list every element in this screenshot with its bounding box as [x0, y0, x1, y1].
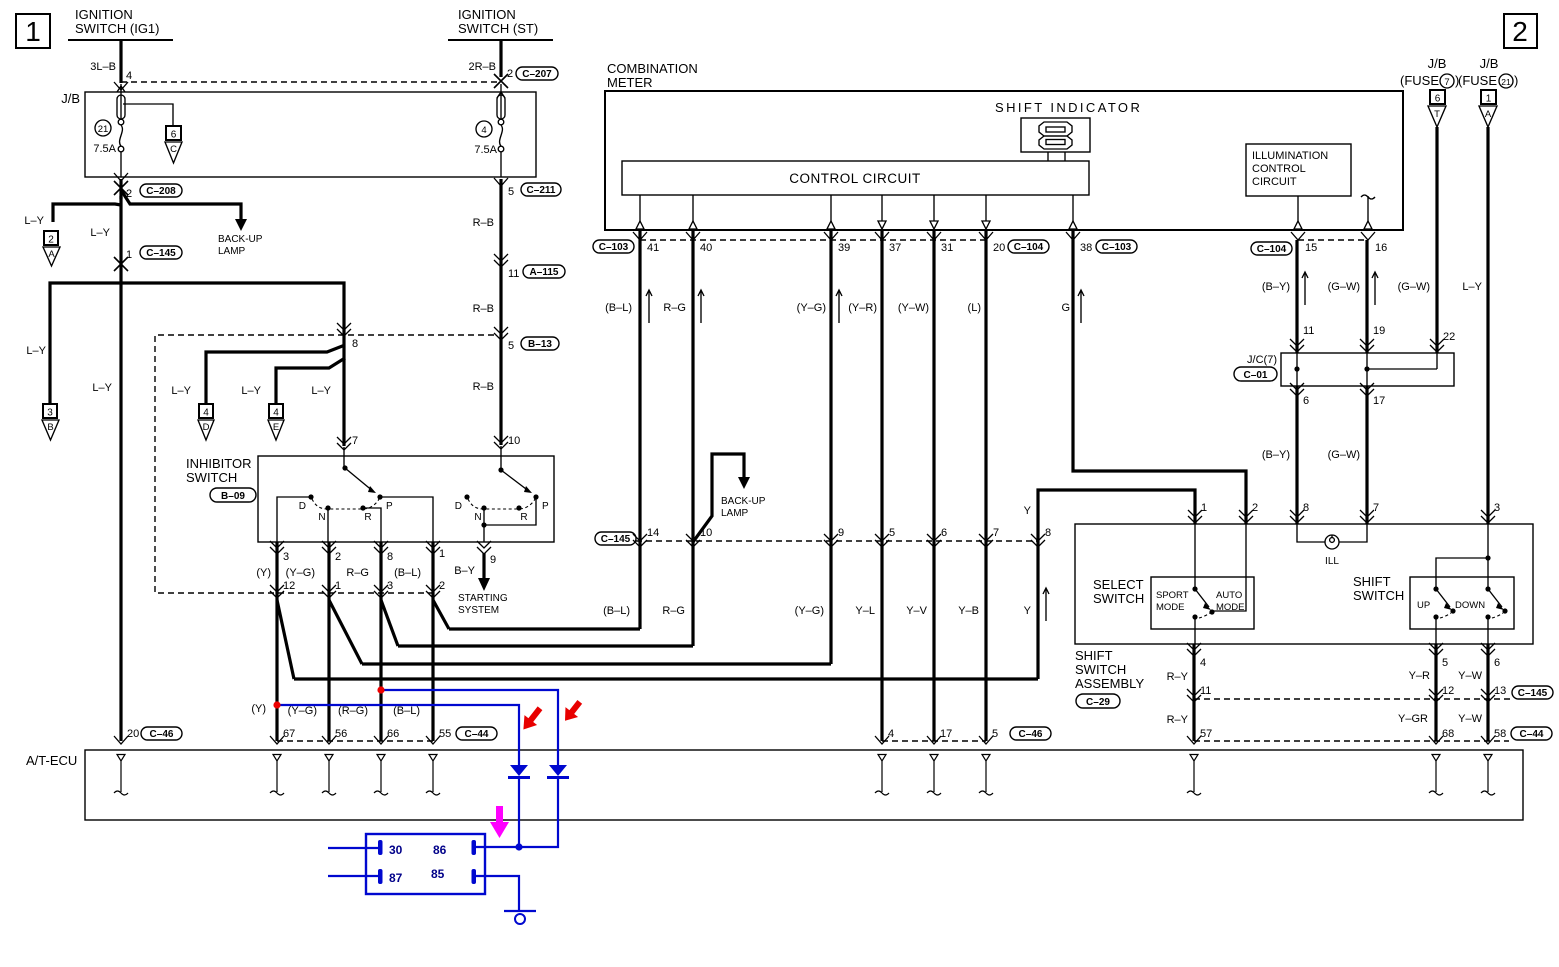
- svg-text:L–Y: L–Y: [92, 382, 112, 394]
- svg-text:5: 5: [508, 340, 514, 352]
- svg-text:11: 11: [1303, 325, 1314, 337]
- svg-text:12: 12: [1442, 685, 1454, 697]
- connector C-207: [494, 67, 558, 88]
- svg-text:4: 4: [481, 125, 486, 136]
- svg-text:6: 6: [171, 130, 177, 141]
- back-up lamp branch from pin 10: [693, 454, 766, 542]
- wire 22 G-W from fuse 7: [1398, 127, 1456, 369]
- svg-text:4: 4: [1200, 657, 1206, 669]
- inhibitor output pins 3,2,8,1: [256, 541, 445, 741]
- blue added circuit: [251, 686, 569, 924]
- svg-text:B–Y: B–Y: [454, 565, 475, 577]
- branch at y=283: left to 3/B, right to inhibitor pin 8: [26, 283, 344, 446]
- svg-text:B: B: [47, 422, 53, 433]
- select switch: [1093, 524, 1254, 644]
- svg-text:(R–G): (R–G): [338, 705, 368, 717]
- shift switch: [1353, 524, 1514, 644]
- svg-text:SHIFT: SHIFT: [1075, 648, 1113, 663]
- svg-text:8: 8: [1303, 502, 1309, 514]
- svg-text:Y–V: Y–V: [906, 605, 927, 617]
- svg-text:A/T-ECU: A/T-ECU: [26, 753, 77, 768]
- L-Y branch to terminal 4/E: [241, 358, 345, 404]
- svg-text:SHIFT INDICATOR: SHIFT INDICATOR: [995, 100, 1142, 115]
- svg-text:2: 2: [48, 235, 54, 246]
- svg-text:): ): [1514, 73, 1518, 88]
- svg-text:Y–GR: Y–GR: [1398, 713, 1428, 725]
- wire R-G horizontal run: [398, 644, 693, 647]
- svg-text:L–Y: L–Y: [1462, 281, 1482, 293]
- svg-text:68: 68: [1442, 728, 1454, 740]
- svg-text:86: 86: [433, 843, 447, 857]
- svg-text:L–Y: L–Y: [241, 385, 261, 397]
- svg-text:SYSTEM: SYSTEM: [458, 605, 499, 616]
- page number box 1: [16, 14, 50, 48]
- svg-text:Y: Y: [1024, 505, 1032, 517]
- svg-text:(G–W): (G–W): [1328, 449, 1360, 461]
- svg-text:7: 7: [1373, 502, 1379, 514]
- SSA output wires to ECU: [1167, 643, 1553, 744]
- svg-text:R–G: R–G: [663, 302, 686, 314]
- svg-text:1: 1: [1486, 94, 1492, 105]
- svg-text:6: 6: [1303, 395, 1309, 407]
- svg-text:SHIFT: SHIFT: [1353, 574, 1391, 589]
- svg-text:38: 38: [1080, 242, 1092, 254]
- wire branch at C-208: left to terminal 2/A, right to back-up lamp: [24, 190, 262, 741]
- dashed boundary box around inhibitor area: [155, 335, 494, 593]
- svg-text:(Y): (Y): [256, 567, 271, 579]
- svg-text:C: C: [170, 144, 177, 155]
- wire 3L-B from IG1: [90, 40, 132, 83]
- svg-text:BACK-UP: BACK-UP: [721, 496, 766, 507]
- svg-text:20: 20: [127, 728, 139, 740]
- svg-text:D: D: [299, 501, 306, 512]
- svg-text:C–104: C–104: [1014, 242, 1044, 253]
- svg-text:(L): (L): [968, 302, 981, 314]
- svg-text:DOWN: DOWN: [1455, 600, 1485, 611]
- svg-text:7: 7: [1444, 77, 1449, 88]
- left ECU pin row: [114, 727, 497, 744]
- svg-text:Y–R: Y–R: [1409, 670, 1430, 682]
- wire stub to relay 87: [328, 875, 378, 877]
- svg-text:3: 3: [47, 408, 53, 419]
- wire G pin 38 to select switch pin 2: [1073, 230, 1246, 524]
- svg-text:41: 41: [647, 242, 659, 254]
- svg-text:1: 1: [126, 249, 132, 261]
- svg-text:METER: METER: [607, 75, 653, 90]
- svg-text:SWITCH: SWITCH: [1075, 662, 1126, 677]
- ILL lamp: [1297, 524, 1367, 567]
- svg-text:SWITCH: SWITCH: [1353, 588, 1404, 603]
- svg-text:5: 5: [508, 186, 514, 198]
- svg-text:55: 55: [439, 728, 451, 740]
- svg-text:58: 58: [1494, 728, 1506, 740]
- svg-text:R–B: R–B: [473, 303, 494, 315]
- J/B fuse 7 feed label: [1400, 56, 1459, 88]
- A/T-ECU box: [26, 750, 1523, 820]
- svg-text:CIRCUIT: CIRCUIT: [1252, 176, 1297, 188]
- svg-text:P: P: [386, 501, 393, 512]
- SSA entry chevrons for 1 and 2: [1188, 502, 1258, 523]
- svg-text:D: D: [455, 501, 462, 512]
- svg-text:CONTROL CIRCUIT: CONTROL CIRCUIT: [789, 171, 921, 186]
- wires 15/16 from illumination circuit down to J/C: [1262, 240, 1385, 353]
- svg-text:(Y–G): (Y–G): [286, 567, 315, 579]
- magenta annotation arrow: [490, 806, 509, 838]
- svg-text:(B–Y): (B–Y): [1262, 281, 1290, 293]
- svg-text:3: 3: [283, 551, 289, 563]
- svg-text:C–145: C–145: [1518, 688, 1548, 699]
- svg-text:30: 30: [389, 843, 403, 857]
- wire diagonal from pin 3: [381, 600, 398, 646]
- svg-text:Y–L: Y–L: [855, 605, 875, 617]
- svg-text:P: P: [542, 501, 549, 512]
- ignition switch ST label: [448, 7, 553, 40]
- terminal 1/A: [1479, 90, 1497, 127]
- svg-text:A: A: [48, 249, 55, 260]
- svg-text:C–145: C–145: [146, 248, 176, 259]
- svg-text:SELECT: SELECT: [1093, 577, 1144, 592]
- svg-text:8: 8: [1045, 527, 1051, 539]
- svg-text:(B–L): (B–L): [603, 605, 630, 617]
- junction dot on wire 66: [377, 686, 384, 693]
- relay pin 30 terminal: [378, 840, 383, 855]
- svg-text:2: 2: [1512, 16, 1528, 47]
- svg-text:SWITCH: SWITCH: [1093, 591, 1144, 606]
- svg-text:R: R: [364, 512, 371, 523]
- wire (Y-G) horizontal run: [362, 662, 831, 665]
- wire colour labels below meter: [605, 290, 1084, 323]
- relay pin 85 terminal: [472, 869, 477, 884]
- junction dot on wire 67: [273, 701, 280, 708]
- svg-text:CONTROL: CONTROL: [1252, 163, 1306, 175]
- svg-text:B–13: B–13: [528, 339, 552, 350]
- wire blue tap from node 67 (Y): [277, 705, 519, 765]
- svg-text:(B–L): (B–L): [394, 567, 421, 579]
- svg-text:N: N: [318, 512, 325, 523]
- wire relay 85 to ground: [476, 876, 519, 912]
- terminal 4/D: [198, 404, 214, 440]
- svg-text:C–208: C–208: [146, 186, 176, 197]
- meter internal pin stubs with direction triangles: [636, 195, 1375, 229]
- ECU internal pins: [114, 755, 1495, 796]
- wire Y-L pin 37 vertical: [880, 230, 883, 741]
- wire diagonal from pin 12: [277, 600, 294, 679]
- terminal 4/E: [268, 404, 284, 440]
- svg-text:L–Y: L–Y: [24, 215, 44, 227]
- starting system pin 9: [454, 541, 508, 616]
- svg-text:D: D: [203, 422, 210, 433]
- wire R-G pin 40 vertical: [691, 230, 694, 646]
- svg-text:R: R: [520, 512, 527, 523]
- svg-text:SWITCH (IG1): SWITCH (IG1): [75, 21, 160, 36]
- svg-text:3: 3: [1494, 502, 1500, 514]
- svg-text:SWITCH (ST): SWITCH (ST): [458, 21, 538, 36]
- svg-text:(Y–W): (Y–W): [898, 302, 929, 314]
- wire colour labels below C-145 row: [603, 505, 1049, 621]
- svg-text:L–Y: L–Y: [26, 345, 46, 357]
- wire 2R-B from ST: [468, 40, 513, 80]
- svg-text:17: 17: [1373, 395, 1385, 407]
- svg-text:(G–W): (G–W): [1328, 281, 1360, 293]
- svg-text:(Y–R): (Y–R): [848, 302, 877, 314]
- svg-text:C–211: C–211: [527, 185, 556, 196]
- combination meter box: [605, 61, 1403, 230]
- terminal 6/C inside J/B: [123, 104, 182, 163]
- svg-text:21: 21: [1501, 77, 1511, 87]
- wire diagonal from pin 1: [329, 600, 362, 664]
- svg-text:(Y): (Y): [251, 703, 266, 715]
- svg-text:13: 13: [1494, 685, 1506, 697]
- svg-text:39: 39: [838, 242, 850, 254]
- meter bottom pin row: [593, 232, 1387, 255]
- svg-text:E: E: [273, 422, 279, 433]
- svg-text:Y: Y: [1024, 605, 1032, 617]
- svg-text:6: 6: [1494, 657, 1500, 669]
- svg-text:(Y–G): (Y–G): [795, 605, 824, 617]
- ground symbol: [515, 914, 525, 924]
- wire (B-L) horizontal run: [449, 627, 640, 630]
- connector C-145 pin 1: [114, 246, 182, 271]
- svg-text:6: 6: [941, 527, 947, 539]
- wire (Y-G) pin 39 vertical: [829, 230, 832, 664]
- svg-text:L–Y: L–Y: [171, 385, 191, 397]
- relay K1: [366, 834, 485, 894]
- svg-text:(B–Y): (B–Y): [1262, 449, 1290, 461]
- junction connector J/C(7) C-01: [1234, 353, 1454, 386]
- svg-text:Y–B: Y–B: [958, 605, 979, 617]
- svg-text:LAMP: LAMP: [218, 246, 246, 257]
- junction block J/B box: [61, 91, 536, 177]
- svg-text:5: 5: [992, 728, 998, 740]
- svg-text:J/B: J/B: [1428, 56, 1447, 71]
- svg-text:COMBINATION: COMBINATION: [607, 61, 698, 76]
- svg-text:12: 12: [283, 580, 295, 592]
- svg-text:3L–B: 3L–B: [90, 61, 116, 73]
- svg-text:11: 11: [1200, 685, 1211, 697]
- inhibitor switch left bank: [277, 465, 433, 542]
- svg-text:C–46: C–46: [150, 729, 174, 740]
- wire stub to relay 30: [328, 847, 378, 849]
- svg-text:L–Y: L–Y: [311, 385, 331, 397]
- svg-text:A: A: [1485, 109, 1492, 120]
- svg-text:A–115: A–115: [530, 267, 559, 278]
- svg-text:ILL: ILL: [1325, 556, 1339, 567]
- wire Y-V pin 31 vertical: [932, 230, 935, 741]
- svg-text:SWITCH: SWITCH: [186, 470, 237, 485]
- svg-text:IGNITION: IGNITION: [458, 7, 516, 22]
- shift switch assembly box: [1075, 524, 1533, 708]
- wire Y horizontal run: [294, 677, 1038, 680]
- red annotation arrows: [517, 697, 586, 735]
- terminal 6/T: [1428, 90, 1446, 127]
- svg-text:56: 56: [335, 728, 347, 740]
- ignition switch IG1 label: [68, 7, 173, 40]
- svg-text:9: 9: [838, 527, 844, 539]
- svg-text:BACK-UP: BACK-UP: [218, 234, 263, 245]
- svg-text:UP: UP: [1417, 600, 1430, 611]
- svg-text:R–G: R–G: [662, 605, 685, 617]
- svg-text:R–B: R–B: [473, 217, 494, 229]
- svg-text:Y–W: Y–W: [1458, 670, 1482, 682]
- svg-text:57: 57: [1200, 728, 1212, 740]
- svg-text:10: 10: [700, 527, 712, 539]
- svg-text:(Y–G): (Y–G): [797, 302, 826, 314]
- svg-text:C–207: C–207: [522, 69, 552, 80]
- wire Y-B pin 20 vertical: [984, 230, 987, 741]
- shift indicator: [995, 100, 1142, 161]
- wire relay 86 to diode junction: [476, 846, 519, 848]
- svg-text:STARTING: STARTING: [458, 593, 508, 604]
- svg-text:40: 40: [700, 242, 712, 254]
- svg-text:(Y–G): (Y–G): [288, 705, 317, 717]
- relay pin 86 terminal: [472, 840, 477, 855]
- diode D1: [510, 765, 528, 776]
- svg-text:7: 7: [352, 435, 358, 447]
- wire (B-L) pin 41 vertical: [638, 230, 641, 629]
- J/B fuse 21 feed label: [1458, 56, 1518, 88]
- svg-text:15: 15: [1305, 242, 1317, 254]
- svg-text:2: 2: [335, 551, 341, 563]
- svg-text:1: 1: [1201, 502, 1207, 514]
- svg-text:85: 85: [431, 867, 445, 881]
- illumination control circuit box: [1246, 144, 1351, 196]
- C-145 middle connector row: [595, 527, 1051, 547]
- svg-text:AUTO: AUTO: [1216, 590, 1242, 601]
- terminal 3/B: [42, 404, 59, 440]
- svg-text:2R–B: 2R–B: [468, 61, 496, 73]
- svg-text:4: 4: [126, 70, 132, 82]
- wire blue tap from node 66 (R-G): [381, 690, 558, 765]
- svg-text:17: 17: [940, 728, 952, 740]
- svg-text:ASSEMBLY: ASSEMBLY: [1075, 676, 1144, 691]
- fuse 21: [93, 82, 128, 177]
- svg-text:ILLUMINATION: ILLUMINATION: [1252, 150, 1328, 162]
- connector C-208: [114, 173, 182, 200]
- wire L-Y from fuse 21: [1462, 127, 1500, 524]
- dashed connector line top: [121, 81, 501, 83]
- svg-text:5: 5: [889, 527, 895, 539]
- svg-text:L–Y: L–Y: [90, 227, 110, 239]
- wires 6/17 from J/C down to SSA: [1262, 383, 1385, 524]
- svg-text:R–Y: R–Y: [1167, 714, 1189, 726]
- svg-text:C–44: C–44: [465, 729, 489, 740]
- node 7 inhibitor pin: [337, 435, 358, 468]
- svg-text:C–44: C–44: [1520, 729, 1544, 740]
- svg-text:R–G: R–G: [346, 567, 369, 579]
- svg-text:J/B: J/B: [1480, 56, 1499, 71]
- svg-text:R–Y: R–Y: [1167, 671, 1189, 683]
- svg-text:C–29: C–29: [1086, 697, 1110, 708]
- svg-text:1: 1: [439, 548, 445, 560]
- svg-text:7.5A: 7.5A: [474, 144, 497, 156]
- svg-text:7.5A: 7.5A: [93, 143, 116, 155]
- svg-text:N: N: [474, 512, 481, 523]
- svg-text:22: 22: [1443, 331, 1455, 343]
- inhibitor switch right bank: [455, 467, 549, 542]
- svg-text:2: 2: [1252, 502, 1258, 514]
- ST wire down to inhibitor: R-B segments: [473, 178, 565, 470]
- fuse 4: [474, 84, 505, 177]
- svg-text:8: 8: [352, 338, 358, 350]
- svg-text:1: 1: [25, 16, 41, 47]
- page number box 2: [1504, 14, 1537, 48]
- svg-text:T: T: [1434, 109, 1440, 120]
- svg-text:8: 8: [387, 551, 393, 563]
- svg-text:C–103: C–103: [1102, 242, 1132, 253]
- svg-text:C–103: C–103: [599, 242, 629, 253]
- svg-text:C–46: C–46: [1019, 729, 1043, 740]
- svg-text:7: 7: [993, 527, 999, 539]
- svg-text:MODE: MODE: [1156, 602, 1185, 613]
- svg-text:4: 4: [888, 728, 894, 740]
- svg-text:6: 6: [1435, 94, 1441, 105]
- svg-text:66: 66: [387, 728, 399, 740]
- terminal 2/A: [43, 231, 60, 266]
- svg-text:16: 16: [1375, 242, 1387, 254]
- svg-text:9: 9: [490, 554, 496, 566]
- L-Y branch to terminal 4/D: [171, 345, 345, 404]
- svg-text:1: 1: [335, 580, 341, 592]
- svg-text:J/B: J/B: [61, 91, 80, 106]
- svg-text:5: 5: [1442, 657, 1448, 669]
- svg-text:C–145: C–145: [601, 534, 631, 545]
- control circuit box: [622, 161, 1089, 195]
- svg-text:Y–W: Y–W: [1458, 713, 1482, 725]
- svg-text:SPORT: SPORT: [1156, 590, 1189, 601]
- node 8 on L-Y wire: [337, 323, 358, 350]
- svg-text:G: G: [1061, 302, 1070, 314]
- svg-text:(G–W): (G–W): [1398, 281, 1430, 293]
- svg-text:3: 3: [387, 580, 393, 592]
- svg-text:2: 2: [439, 580, 445, 592]
- diode D2: [549, 765, 567, 776]
- svg-text:J/C(7): J/C(7): [1247, 354, 1277, 366]
- svg-text:4: 4: [203, 408, 209, 419]
- svg-text:(FUSE: (FUSE: [1458, 73, 1497, 88]
- svg-text:31: 31: [941, 242, 953, 254]
- wire diagonal from pin 2: [433, 600, 449, 629]
- svg-text:10: 10: [508, 435, 520, 447]
- svg-text:19: 19: [1373, 325, 1385, 337]
- svg-text:11: 11: [508, 268, 519, 280]
- relay pin 87 terminal: [378, 869, 383, 884]
- svg-text:87: 87: [389, 871, 403, 885]
- middle ECU pin row 4,17,5 C-46: [875, 727, 1051, 744]
- svg-text:4: 4: [273, 408, 279, 419]
- svg-text:LAMP: LAMP: [721, 508, 749, 519]
- svg-text:67: 67: [283, 728, 295, 740]
- inhibitor switch box: [186, 456, 554, 542]
- svg-text:C–01: C–01: [1244, 370, 1268, 381]
- svg-text:(FUSE: (FUSE: [1400, 73, 1439, 88]
- wire Y via C-145 pin 8 to select switch pin 1: [1038, 490, 1195, 679]
- svg-text:B–09: B–09: [221, 491, 245, 502]
- svg-text:INHIBITOR: INHIBITOR: [186, 456, 252, 471]
- svg-text:21: 21: [98, 124, 109, 135]
- svg-text:C–104: C–104: [1257, 244, 1287, 255]
- svg-text:37: 37: [889, 242, 901, 254]
- svg-text:(B–L): (B–L): [393, 705, 420, 717]
- svg-text:(B–L): (B–L): [605, 302, 632, 314]
- svg-text:14: 14: [647, 527, 659, 539]
- svg-text:IGNITION: IGNITION: [75, 7, 133, 22]
- svg-text:20: 20: [993, 242, 1005, 254]
- svg-text:R–B: R–B: [473, 381, 494, 393]
